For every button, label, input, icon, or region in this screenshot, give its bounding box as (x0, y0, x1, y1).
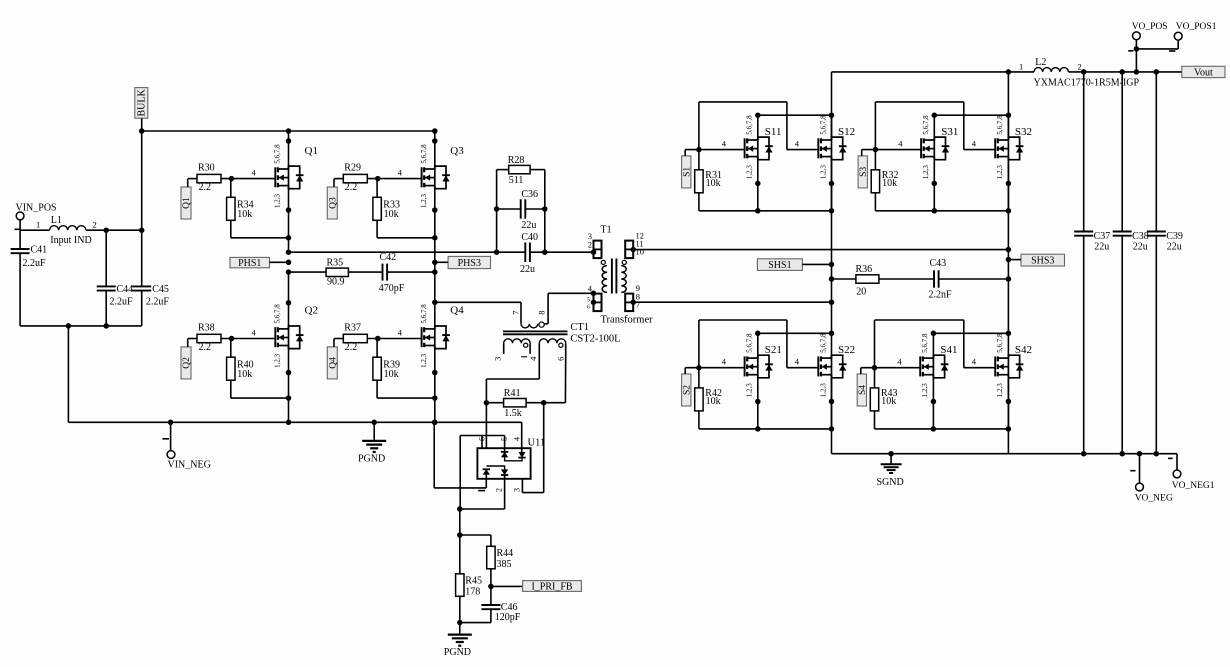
svg-text:22u: 22u (521, 220, 536, 231)
svg-text:2: 2 (1078, 61, 1082, 71)
svg-text:5,6,7,8: 5,6,7,8 (420, 304, 428, 324)
ground SGND (877, 451, 904, 488)
svg-text:1,2,3: 1,2,3 (819, 383, 827, 398)
resistor R28 511 (497, 155, 545, 252)
transistor Q4 (420, 304, 464, 368)
resistor R41 1.5k (484, 388, 547, 419)
wire T1 secondary top (633, 247, 1011, 253)
capacitor C37 22u (1074, 69, 1110, 456)
svg-text:10k: 10k (384, 369, 399, 380)
resistor R43 10k (870, 368, 933, 429)
svg-text:5,6,7,8: 5,6,7,8 (921, 333, 929, 353)
svg-text:VIN_POS: VIN_POS (16, 203, 57, 214)
svg-text:Vout: Vout (1194, 67, 1213, 78)
svg-text:10k: 10k (706, 178, 721, 189)
svg-text:4: 4 (398, 167, 403, 177)
svg-text:5,6,7,8: 5,6,7,8 (746, 333, 754, 353)
resistor R37 2.2 (334, 323, 367, 354)
svg-text:C44: C44 (117, 284, 134, 295)
svg-text:C36: C36 (521, 189, 538, 200)
wire L2 to Vout (1069, 71, 1182, 73)
port VO_POS1 (1136, 22, 1216, 51)
resistor R29 2.2 (334, 163, 367, 194)
node at C44 top (103, 227, 109, 233)
svg-text:S41: S41 (940, 344, 957, 356)
svg-text:BULK: BULK (137, 89, 148, 117)
svg-text:R45: R45 (465, 576, 482, 587)
wire S21 S22 sources (755, 378, 834, 432)
wire PHS3 to CT1 (435, 302, 521, 323)
svg-text:5,6,7,8: 5,6,7,8 (922, 115, 930, 135)
net label SHS3 (1006, 254, 1065, 266)
svg-text:5,6,7,8: 5,6,7,8 (746, 115, 754, 135)
svg-text:2.2nF: 2.2nF (929, 290, 953, 301)
wire U11 pin3 route (522, 403, 543, 493)
wire CT1 to T1 pin4 (548, 293, 593, 323)
wire primary ground rail (171, 421, 522, 423)
wire R29 to Q3 gate (367, 167, 421, 181)
svg-text:4: 4 (972, 357, 977, 367)
transistor S41 (920, 333, 957, 397)
net label SHS1 (757, 259, 834, 271)
wire drop to primary ground rail (68, 326, 170, 422)
net label S2 (682, 368, 693, 406)
svg-text:90.9: 90.9 (327, 277, 345, 288)
inductor L1 Input IND (36, 215, 97, 246)
svg-text:385: 385 (497, 559, 512, 570)
net label Q4 (327, 339, 338, 379)
svg-text:511: 511 (509, 175, 524, 186)
wire S41 S42 drains (931, 331, 1012, 359)
capacitor C39 22u (1147, 69, 1183, 456)
svg-text:3: 3 (493, 357, 503, 361)
svg-text:S2: S2 (682, 385, 692, 395)
svg-text:2: 2 (588, 240, 592, 250)
node input bottom to PGND drop (66, 323, 109, 329)
svg-text:4: 4 (398, 327, 403, 337)
svg-text:R38: R38 (198, 323, 215, 334)
transistor S22 (818, 333, 855, 397)
resistor R39 10k (373, 339, 438, 401)
diode bridge U11 (477, 438, 545, 479)
svg-text:5,6,7,8: 5,6,7,8 (819, 115, 827, 135)
svg-text:C42: C42 (380, 252, 397, 263)
svg-text:5,6,7,8: 5,6,7,8 (420, 144, 428, 164)
svg-text:S22: S22 (838, 344, 855, 356)
net label S3 (858, 150, 869, 188)
port VIN_POS (15, 203, 57, 230)
svg-text:SHS1: SHS1 (768, 260, 791, 271)
pin labels U11 (478, 437, 522, 492)
port VO_NEG1 (1168, 454, 1215, 491)
svg-text:1,2,3: 1,2,3 (922, 165, 930, 180)
resistor R38 2.2 (188, 323, 221, 354)
wire left leg mid (831, 160, 833, 334)
svg-text:CST2-100L: CST2-100L (570, 334, 620, 345)
svg-text:6: 6 (587, 305, 590, 311)
svg-text:7: 7 (636, 299, 640, 309)
svg-text:Q2: Q2 (305, 305, 318, 317)
svg-text:4: 4 (722, 357, 727, 367)
svg-text:PHS1: PHS1 (238, 258, 261, 269)
svg-text:10k: 10k (384, 209, 399, 220)
wire R38 to Q2 gate (221, 327, 275, 341)
transistor S11 (745, 115, 782, 179)
svg-text:4: 4 (722, 138, 727, 148)
svg-text:U11: U11 (528, 438, 546, 449)
svg-text:1,2,3: 1,2,3 (420, 353, 428, 368)
svg-text:20: 20 (856, 286, 866, 297)
svg-text:S21: S21 (765, 344, 782, 356)
diode U11 D4 (501, 469, 508, 475)
wire Q4 drain (432, 300, 438, 329)
svg-text:10k: 10k (882, 178, 897, 189)
wire left leg lower (831, 378, 833, 454)
current transformer CT1 winding 3-1 (493, 339, 539, 361)
svg-text:R37: R37 (344, 323, 361, 334)
current transformer CT1 winding 4-6 (539, 339, 565, 379)
svg-text:L1: L1 (51, 215, 62, 226)
svg-text:Q1: Q1 (182, 197, 192, 209)
wire S1 gate (685, 138, 800, 152)
svg-text:10: 10 (636, 246, 645, 256)
svg-text:4: 4 (972, 138, 977, 148)
capacitor C43 2.2nF (929, 258, 1012, 301)
svg-text:470pF: 470pF (379, 283, 405, 294)
svg-text:C41: C41 (31, 245, 48, 256)
svg-text:5,6,7,8: 5,6,7,8 (274, 144, 282, 164)
wire S21 S22 drains (755, 331, 834, 359)
svg-text:T1: T1 (601, 225, 612, 236)
node T1 pin2 (591, 249, 597, 255)
wire BULK vertical (141, 131, 143, 230)
node BULK rail (139, 128, 145, 134)
svg-text:Q1: Q1 (305, 145, 318, 157)
net label Q3 (327, 179, 338, 219)
node at C45/BULK column (139, 227, 145, 233)
wire right leg lower (1007, 378, 1009, 454)
svg-text:R36: R36 (856, 264, 873, 275)
svg-text:4: 4 (528, 356, 538, 361)
svg-text:Q4: Q4 (329, 357, 339, 369)
svg-text:I_PRI_FB: I_PRI_FB (531, 582, 572, 593)
svg-text:CT1: CT1 (570, 322, 589, 333)
svg-text:1,2,3: 1,2,3 (274, 194, 282, 209)
svg-text:5,6,7,8: 5,6,7,8 (819, 333, 827, 353)
diode U11 D2 (518, 452, 525, 458)
wire U11 top pair link (505, 457, 522, 460)
port VIN_NEG (163, 420, 211, 471)
wire CT1 center to rectifier (486, 379, 539, 469)
wire U11 bottom pair link (486, 466, 504, 469)
wire VIN_POS to L1 (20, 220, 49, 230)
wire Q1 source (286, 189, 292, 252)
transistor S21 (745, 333, 782, 397)
wire L1 to C45/BULK node (86, 229, 142, 231)
svg-text:1,2,3: 1,2,3 (996, 383, 1004, 398)
wire input bottom rail (20, 325, 142, 327)
transistor Q1 (274, 144, 318, 208)
svg-text:6: 6 (478, 437, 487, 441)
wire U11 pin2 out (457, 475, 505, 512)
svg-text:10k: 10k (237, 369, 252, 380)
svg-text:VO_POS1: VO_POS1 (1176, 22, 1217, 32)
label CT1 (570, 322, 620, 344)
wire S41 S42 sources (931, 378, 1012, 432)
resistor R45 178 (456, 535, 482, 625)
resistor R44 385 (460, 535, 513, 589)
svg-text:2.2uF: 2.2uF (110, 296, 134, 307)
wire U11 pin5 top (460, 436, 504, 452)
svg-text:1,2,3: 1,2,3 (746, 383, 754, 398)
wire secondary top rail (832, 71, 1035, 73)
svg-text:PHS3: PHS3 (458, 258, 481, 269)
svg-text:SGND: SGND (877, 477, 904, 488)
wire S2 gate (685, 357, 800, 371)
wire S11 S12 drains (755, 112, 834, 140)
svg-text:Transformer: Transformer (601, 315, 654, 326)
capacitor C40 22u (494, 232, 594, 275)
svg-text:2: 2 (495, 488, 504, 492)
svg-text:R28: R28 (508, 155, 525, 166)
svg-text:VO_NEG1: VO_NEG1 (1172, 481, 1215, 491)
wire Q3 source (432, 189, 438, 302)
svg-text:R29: R29 (344, 163, 361, 174)
wire S1 gate jumper (699, 102, 818, 150)
svg-text:2.2uF: 2.2uF (146, 296, 170, 307)
svg-text:10k: 10k (237, 209, 252, 220)
net label PHS1 (230, 257, 291, 269)
svg-text:S12: S12 (838, 126, 855, 138)
svg-text:C45: C45 (152, 284, 169, 295)
capacitor C36 22u (494, 189, 548, 231)
svg-text:S42: S42 (1015, 344, 1032, 356)
svg-text:178: 178 (465, 586, 480, 597)
wire left leg upper (831, 72, 833, 140)
svg-text:4: 4 (795, 357, 800, 367)
wire Q2 drain (286, 272, 292, 329)
wire Q4 source (432, 349, 438, 425)
svg-text:2.2: 2.2 (199, 182, 212, 193)
svg-text:2.2: 2.2 (345, 342, 358, 353)
svg-text:4: 4 (513, 437, 522, 441)
ground PGND bottom (444, 623, 472, 658)
svg-text:2: 2 (93, 219, 97, 229)
svg-text:4: 4 (898, 138, 903, 148)
svg-text:S32: S32 (1015, 126, 1032, 138)
svg-text:1,2,3: 1,2,3 (819, 165, 827, 180)
transistor S32 (995, 115, 1032, 179)
svg-text:1,2,3: 1,2,3 (274, 353, 282, 368)
svg-text:PGND: PGND (444, 647, 471, 658)
diode U11 D3 (483, 469, 490, 475)
svg-text:S11: S11 (765, 126, 782, 138)
svg-text:Q4: Q4 (450, 305, 464, 317)
net label Q2 (181, 339, 192, 379)
net label Vout (1182, 66, 1225, 78)
svg-text:Q3: Q3 (450, 145, 464, 157)
wire S4 gate (861, 357, 977, 371)
svg-text:S3: S3 (859, 167, 869, 177)
svg-text:R35: R35 (327, 258, 344, 269)
svg-text:1,2,3: 1,2,3 (921, 383, 929, 398)
wire Q2 source (286, 349, 292, 425)
resistor R34 10k (227, 179, 292, 241)
resistor R31 10k (695, 150, 758, 211)
wire CT1 pin6 down (544, 354, 566, 403)
svg-text:Q3: Q3 (329, 197, 339, 209)
svg-text:5,6,7,8: 5,6,7,8 (996, 333, 1004, 353)
wire secondary ground rail (832, 453, 1178, 455)
current transformer CT1 core (503, 331, 568, 334)
net label I_PRI_FB (491, 581, 581, 593)
capacitor C38 22u (1113, 69, 1149, 456)
wire S11 S12 sources (755, 160, 834, 214)
svg-text:10k: 10k (706, 396, 721, 407)
svg-text:PGND: PGND (358, 454, 385, 465)
net label S4 (857, 368, 868, 406)
wire S3 gate (862, 138, 977, 152)
transistor Q2 (274, 304, 318, 368)
net label PHS3 (432, 256, 490, 269)
wire U11 left riser (459, 436, 461, 510)
svg-text:3: 3 (513, 488, 522, 492)
svg-text:R30: R30 (198, 163, 215, 174)
wire right leg mid (1007, 160, 1009, 334)
transformer T1 (587, 225, 653, 326)
port VO_NEG (1130, 451, 1173, 503)
svg-text:1.5k: 1.5k (504, 408, 522, 419)
svg-text:6: 6 (556, 357, 566, 361)
wire Q1 drain (286, 128, 292, 169)
svg-text:5,6,7,8: 5,6,7,8 (274, 304, 282, 324)
svg-text:1: 1 (1019, 61, 1023, 71)
wire S31 S32 drains (932, 112, 1012, 140)
transistor S42 (995, 333, 1032, 397)
svg-text:5,6,7,8: 5,6,7,8 (996, 115, 1004, 135)
transistor Q3 (420, 144, 464, 208)
svg-text:R44: R44 (497, 548, 514, 559)
svg-text:2.2: 2.2 (199, 342, 212, 353)
wire S3 gate jumper (875, 102, 995, 150)
resistor R32 10k (871, 150, 934, 211)
transistor S12 (818, 115, 855, 179)
wire right leg upper (1006, 69, 1012, 140)
svg-text:Q2: Q2 (182, 357, 192, 369)
current transformer CT1 primary (511, 311, 549, 328)
resistor R36 20 (829, 264, 934, 297)
svg-text:SHS3: SHS3 (1031, 256, 1054, 267)
wire S2 gate jumper (699, 320, 818, 368)
svg-text:C40: C40 (521, 232, 538, 243)
net label S1 (682, 150, 693, 188)
capacitor C41 2.2uF (11, 230, 48, 326)
resistor R42 10k (695, 368, 758, 429)
wire sense node (457, 509, 463, 538)
svg-text:8: 8 (537, 311, 547, 315)
svg-text:VO_NEG: VO_NEG (1135, 493, 1173, 503)
diode U11 D1 (501, 452, 508, 458)
svg-text:S1: S1 (682, 167, 692, 177)
wire Q3 drain (432, 128, 438, 169)
svg-text:22u: 22u (1167, 241, 1182, 252)
svg-text:5: 5 (587, 298, 590, 304)
node T1 pin8 (630, 299, 636, 305)
wire PHS1 to transformer (286, 249, 526, 255)
net label Q1 (181, 179, 192, 219)
node T1 pin4 (591, 291, 597, 306)
svg-text:5: 5 (500, 437, 509, 441)
net label BULK (135, 88, 148, 131)
svg-text:1,2,3: 1,2,3 (420, 194, 428, 209)
svg-text:2.2: 2.2 (345, 182, 358, 193)
svg-text:R41: R41 (504, 388, 521, 399)
svg-text:1,2,3: 1,2,3 (746, 165, 754, 180)
svg-text:120pF: 120pF (495, 612, 521, 623)
wire R30 to Q1 gate (221, 167, 275, 181)
svg-text:10k: 10k (881, 396, 896, 407)
wire R37 to Q4 gate (367, 327, 421, 341)
port VO_POS (1128, 22, 1167, 74)
svg-text:S4: S4 (858, 385, 868, 395)
svg-text:VIN_NEG: VIN_NEG (168, 460, 211, 471)
svg-text:C43: C43 (930, 258, 947, 269)
svg-text:4: 4 (795, 138, 800, 148)
svg-text:Input IND: Input IND (50, 235, 91, 246)
wire S4 gate jumper (875, 320, 996, 368)
svg-text:1: 1 (36, 219, 40, 229)
ground PGND primary (358, 420, 386, 465)
svg-text:4: 4 (897, 357, 902, 367)
capacitor C44 2.2uF (97, 230, 133, 326)
wire U11 pin1 (432, 420, 487, 488)
transistor S31 (921, 115, 958, 179)
capacitor C42 470pF (379, 252, 438, 294)
capacitor C45 2.2uF (132, 230, 169, 326)
resistor R35 90.9 (286, 258, 383, 288)
resistor R33 10k (373, 179, 438, 241)
svg-text:22u: 22u (1133, 241, 1148, 252)
svg-text:S31: S31 (941, 126, 958, 138)
wire T1 secondary bottom (633, 299, 834, 305)
svg-text:22u: 22u (1094, 241, 1109, 252)
capacitor C46 120pF (460, 586, 521, 623)
wire S31 S32 sources (932, 160, 1012, 214)
resistor R40 10k (227, 339, 292, 401)
svg-text:VO_POS: VO_POS (1132, 22, 1168, 32)
node T1 pin11 (630, 247, 636, 253)
svg-text:22u: 22u (520, 264, 535, 275)
svg-text:2.2uF: 2.2uF (23, 258, 47, 269)
svg-text:L2: L2 (1035, 57, 1046, 68)
wire U11 pin4 from ground rail (521, 422, 523, 452)
svg-text:7: 7 (511, 311, 521, 315)
inductor L2 (1019, 57, 1140, 89)
svg-text:1,2,3: 1,2,3 (996, 165, 1004, 180)
wire BULK top rail (142, 130, 435, 132)
resistor R30 2.2 (188, 163, 221, 194)
svg-text:YXMAC1770-1R5M-IGP: YXMAC1770-1R5M-IGP (1034, 78, 1140, 89)
